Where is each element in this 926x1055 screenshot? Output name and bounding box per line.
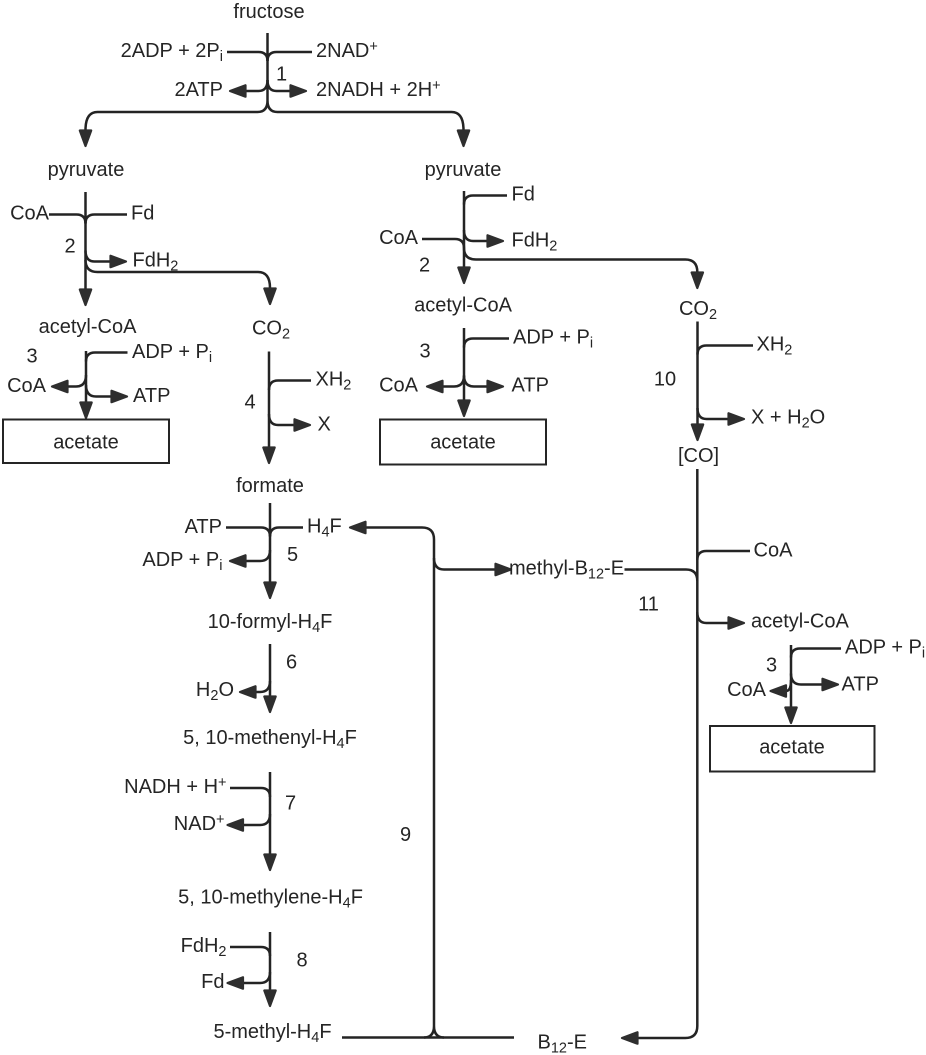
wire methyl-B12-E to reaction 11 [625,570,698,582]
arrow to ADP + Pi (rxn5) [230,555,246,566]
wire loop-9 vertical [422,528,444,1038]
wire reaction-3R output ATP [791,674,823,685]
arrow to ATP (left rxn3) [112,391,128,402]
svg-text:formate: formate [236,475,304,497]
arrow into left acetate box [80,403,91,419]
svg-text:11: 11 [638,594,659,616]
wire rxn6 stem [269,644,272,696]
svg-text:2NAD+​: 2NAD+​ [316,39,378,62]
wire reaction-8 input FdH2 [230,947,270,956]
wire reaction-11 input CoA [697,551,750,560]
svg-text:5-methyl-H4​F: 5-methyl-H4​F [213,1021,331,1046]
wire reaction-4 input XH2 [269,381,311,391]
arrow to X + H2O [729,413,745,424]
wire right acetyl-CoA stem [790,645,793,707]
wire reaction-2R input Fd [464,196,507,205]
svg-text:acetyl-CoA: acetyl-CoA [414,295,512,317]
wire left pyruvate stem [84,192,87,289]
svg-text:B12​-E: B12​-E [538,1032,587,1055]
svg-text:Fd: Fd [512,184,535,206]
arrow to right acetyl-CoA [729,617,745,628]
svg-text:ADP + Pi​: ADP + Pi​ [513,327,593,352]
svg-text:3: 3 [419,341,430,363]
svg-text:NADH + H+​: NADH + H+​ [124,775,226,798]
svg-text:X: X [318,414,331,436]
wire reaction-2L input Fd [86,215,128,224]
svg-text:6: 6 [286,652,297,674]
wire reaction-1 output 2ATP [246,80,268,91]
wire middle acetyl-CoA stem [463,328,466,400]
wire reaction-2L input CoA [49,215,86,224]
svg-text:NAD+​: NAD+​ [174,812,225,835]
arrow to 2NADH + 2H+ [291,85,307,96]
arrow to X (rxn4) [295,419,311,430]
wire reaction-7 input NADH [230,788,270,797]
svg-text:ATP: ATP [842,674,879,696]
wire reaction-2R output FdH2 [464,230,487,241]
wire reaction-6 output H2O [256,681,270,692]
svg-text:X + H2​O: X + H2​O [751,407,825,432]
wire right pyruvate stem [463,191,466,267]
wire rxn8 stem [269,932,272,990]
svg-text:XH2​: XH2​ [316,369,352,394]
arrow to 5,10-methenyl-H4F [264,697,275,713]
arrow to 2ATP [230,85,246,96]
wire reaction-8 output Fd [244,972,271,983]
svg-text:2ADP + 2Pi​: 2ADP + 2Pi​ [121,40,223,65]
arrow to 5,10-methylene-H4F [264,855,275,871]
wire reaction-3R output CoA [786,680,791,691]
svg-text:FdH2​: FdH2​ [181,935,227,960]
wire reaction-1 input 2ADP+2Pi [227,52,268,61]
box acetate (left) [3,420,169,464]
arrow to 5-methyl-H4F [264,991,275,1007]
arrow to left acetyl-CoA [80,290,91,306]
arrow to left pyruvate [80,131,91,147]
wire reaction-2L output FdH2 [86,251,111,262]
wire branch left CO2 [86,260,271,288]
arrow to middle acetyl-CoA [458,268,469,284]
arrow into right acetate box [785,708,796,724]
svg-text:ATP: ATP [512,375,549,397]
svg-text:Fd: Fd [201,971,224,993]
svg-text:CoA: CoA [379,375,419,397]
svg-text:H4​F: H4​F [307,516,342,541]
wire rxn7 stem [269,772,272,854]
svg-text:ADP + Pi​: ADP + Pi​ [142,549,222,574]
svg-text:fructose: fructose [233,1,304,23]
arrow to right pyruvate [458,131,469,147]
wire reaction-5 output ADP+Pi [246,550,270,561]
arrow to formate [263,448,274,464]
wire reaction-3R input ADP+Pi [791,649,841,658]
svg-text:methyl-B12​-E: methyl-B12​-E [509,558,624,583]
wire CO stem down to B12-E [638,469,697,1038]
svg-text:2: 2 [64,236,75,258]
arrow to left CO2 [264,289,275,305]
svg-text:CoA: CoA [754,540,794,562]
svg-text:5, 10-methenyl-H4​F: 5, 10-methenyl-H4​F [183,727,357,752]
svg-text:acetate: acetate [53,432,119,454]
svg-text:2NADH + 2H+​: 2NADH + 2H+​ [316,78,441,101]
wire reaction-3M output CoA [443,376,464,387]
arrow to right CO2 [692,273,703,289]
wire reaction-3M output ATP [464,376,487,387]
svg-text:acetate: acetate [759,737,825,759]
svg-text:10: 10 [654,369,676,391]
arrow to ATP (rxn3 middle) [488,381,504,392]
svg-text:5: 5 [287,544,298,566]
wire split fillet [258,101,278,113]
box acetate (middle) [380,420,546,465]
svg-text:FdH2​: FdH2​ [512,230,558,255]
svg-text:XH2​: XH2​ [757,334,793,359]
arrow to NAD+ [228,819,244,830]
arrow to 10-formyl-H4F [264,583,275,599]
svg-text:2ATP: 2ATP [174,79,223,101]
wire formate stem [269,503,272,582]
svg-text:pyruvate: pyruvate [425,159,502,181]
svg-text:2: 2 [419,255,430,277]
svg-text:10-formyl-H4​F: 10-formyl-H4​F [208,611,333,636]
arrow to ATP (rxn3 right) [823,679,839,690]
svg-text:3: 3 [766,655,777,677]
wire reaction-1 input 2NAD+ [268,52,313,61]
wire CO2-formate stem [268,352,271,448]
wire reaction-7 output NAD+ [244,814,271,825]
svg-text:acetate: acetate [430,432,496,454]
arrow into B12-E [622,1032,638,1043]
svg-text:3: 3 [26,346,37,368]
wire loop-9 branch to methyl-B12-E [434,558,495,570]
svg-text:acetyl-CoA: acetyl-CoA [39,316,137,338]
wire reaction-11 output acetyl-CoA [697,612,728,623]
svg-text:8: 8 [296,950,307,972]
svg-text:pyruvate: pyruvate [48,159,125,181]
arrow to CoA (left rxn3) [52,381,68,392]
wire recycle H4F from loop 9 [366,526,422,529]
svg-text:1: 1 [276,64,287,86]
wire reaction-10 input XH2 [698,346,754,355]
svg-text:ATP: ATP [133,385,170,407]
wire reaction-3L output CoA [68,375,86,387]
svg-text:5, 10-methylene-H4​F: 5, 10-methylene-H4​F [178,887,363,912]
wire reaction-10 output X+H2O [698,408,729,419]
wire reaction-3M input ADP+Pi [464,339,509,348]
wire split to two pyruvates [86,112,464,130]
wire reaction-5 input ATP [226,528,270,537]
svg-text:Fd: Fd [131,203,154,225]
arrow into middle acetate box [458,401,469,417]
svg-text:ADP + Pi​: ADP + Pi​ [132,341,212,366]
svg-text:acetyl-CoA: acetyl-CoA [751,611,849,633]
wire branch right CO2 [464,248,697,272]
wire reaction-3L input ADP+Pi [86,353,128,362]
svg-text:CoA: CoA [727,679,767,701]
wire reaction-1 output 2NADH [268,80,291,91]
wire reaction-2R input CoA [422,239,464,248]
wire CO2-CO stem [696,322,699,425]
svg-text:ATP: ATP [185,516,222,538]
arrow to H2O [240,686,256,697]
svg-text:CoA: CoA [10,203,50,225]
svg-text:ADP + Pi​: ADP + Pi​ [845,637,925,662]
svg-text:CoA: CoA [7,375,47,397]
wire 5-methyl-H4F to B12-E [342,1036,514,1039]
arrow to FdH2 (left) [111,256,127,267]
wire reaction-4 output X [269,414,294,425]
arrow to Fd (rxn8) [228,977,244,988]
svg-text:7: 7 [285,793,296,815]
wire fructose stem [266,33,269,101]
wire reaction-3L output ATP [86,385,111,397]
svg-text:CO2​: CO2​ [252,318,290,343]
arrow to FdH2 (right) [488,235,504,246]
svg-text:4: 4 [244,392,255,414]
wire reaction-5 input H4F [270,528,303,537]
arrow to CoA (rxn3 middle) [427,381,443,392]
wire left acetyl-CoA stem [85,351,88,402]
svg-text:H2​O: H2​O [196,679,234,704]
svg-text:[CO]: [CO] [678,445,719,467]
arrow into methyl-B12-E [496,564,512,575]
svg-text:CO2​: CO2​ [679,298,717,323]
svg-text:9: 9 [400,824,411,846]
box acetate (right) [710,726,875,772]
svg-text:CoA: CoA [379,227,419,249]
arrow to [CO] [692,425,703,441]
arrow to CoA (rxn3 right) [771,685,787,696]
arrow into H4F [350,522,366,533]
